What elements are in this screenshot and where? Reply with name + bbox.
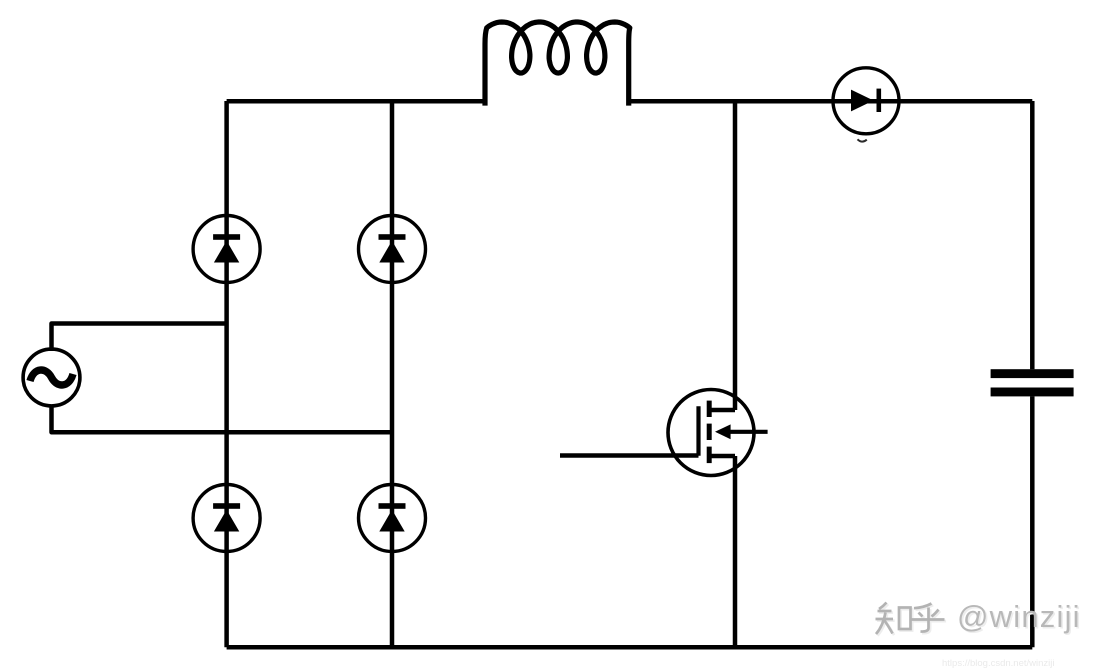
wire bottom rail: [227, 645, 1033, 650]
watermark url: [942, 658, 1054, 669]
wire right rail upper: [1030, 101, 1035, 369]
inductor L1: [485, 22, 630, 106]
AC source V1: [23, 349, 80, 406]
wire AC upper lead: [52, 324, 227, 352]
artifact mark below D5: [858, 139, 867, 141]
wire MOSFET source branch: [733, 456, 738, 647]
wire top rail right: [629, 99, 1033, 104]
wire right rail lower: [1030, 396, 1035, 647]
diode D4 (bridge lower-right): [359, 485, 426, 552]
wire gate lead: [560, 453, 699, 458]
capacitor C1: [991, 369, 1074, 396]
wire top rail left: [227, 99, 485, 104]
wire left bridge leg: [224, 101, 229, 647]
diode D3 (bridge lower-left): [193, 485, 260, 552]
wire MOSFET drain branch: [733, 101, 738, 410]
diode D1 (bridge upper-left): [193, 216, 260, 283]
diode D5 (boost output diode): [833, 68, 899, 134]
wire right bridge leg: [390, 101, 395, 647]
watermark text zhihu logo: [870, 595, 960, 645]
diode D2 (bridge upper-right): [359, 216, 426, 283]
transistor Q1 (MOSFET): [668, 390, 768, 476]
wire AC lower lead: [52, 405, 393, 433]
